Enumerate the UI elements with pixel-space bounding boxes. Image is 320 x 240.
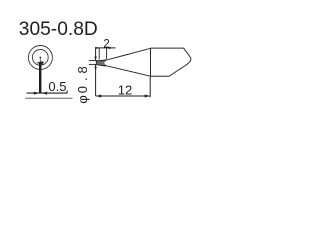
phi0.8 vertical dimension line upper [95, 48, 97, 60]
2 dimension line [95, 47, 115, 49]
svg-text:.: . [75, 77, 90, 81]
svg-text:φ: φ [75, 95, 90, 103]
front view outer circle [28, 46, 52, 70]
phi0.8 lower extension tick [89, 63, 98, 65]
cone shank junction [150, 48, 152, 77]
chisel wedge bottom bevel [96, 64, 106, 65]
0.5 right arrow [42, 92, 48, 95]
12 right extension line [149, 77, 151, 98]
cone bottom edge [106, 66, 151, 77]
chisel wedge fill [97, 61, 105, 65]
cone top edge [106, 48, 151, 60]
2 left extension line [98, 48, 100, 60]
svg-text:8: 8 [75, 66, 90, 73]
0.5 dim end tick [66, 90, 68, 93]
2 right extension line [106, 48, 108, 59]
center dot [39, 57, 41, 59]
12 left arrow [96, 95, 102, 98]
phi0.8 vertical dimension line lower [95, 65, 97, 96]
svg-text:12: 12 [118, 82, 132, 97]
2 outside right arrow [107, 47, 111, 49]
svg-text:0: 0 [75, 86, 90, 93]
2 outside left arrow [95, 47, 99, 49]
12 dimension line [96, 95, 151, 97]
front view inner circle [32, 50, 48, 66]
phi0.8 lower arrow [94, 64, 96, 68]
ground baseline [25, 97, 72, 99]
center leader arrow [36, 61, 44, 65]
phi0.8 upper extension tick [89, 60, 98, 62]
0.5 dimension line [27, 92, 68, 94]
chisel edge [96, 61, 98, 65]
12 right arrow [145, 95, 151, 98]
blade edge line (front view) [39, 63, 41, 93]
0.5 left arrow [34, 92, 40, 95]
svg-text:0.5: 0.5 [48, 79, 66, 94]
shank broken end curve [169, 48, 191, 76]
shank top edge [151, 47, 184, 49]
phi0.8 upper arrow [94, 57, 96, 61]
svg-text:305-0.8D: 305-0.8D [19, 19, 98, 40]
shank bottom edge [151, 75, 170, 77]
chisel wedge top bevel [96, 60, 106, 61]
